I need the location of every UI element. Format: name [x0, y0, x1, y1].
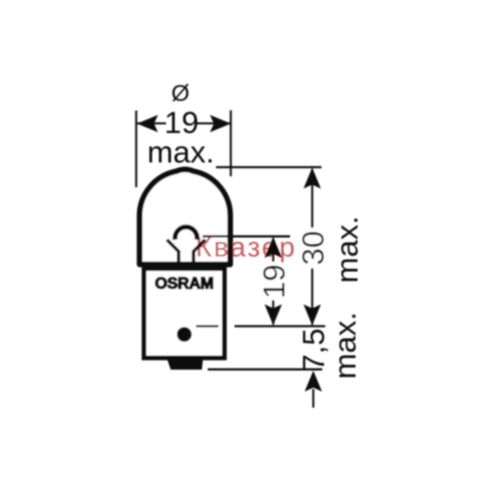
- dome top reference line: [216, 166, 322, 168]
- arrow 19 down: [265, 304, 282, 325]
- svg-text:Ø: Ø: [171, 80, 189, 106]
- svg-text:7,5: 7,5: [296, 328, 331, 371]
- arrow 7,5 up from below: [305, 371, 322, 392]
- contact: [166, 356, 203, 369]
- svg-text:Квазер: Квазер: [196, 232, 297, 263]
- bayonet pin dot: [177, 327, 192, 342]
- 19 LCL dimension line: [272, 238, 274, 325]
- arrow 19 up: [265, 237, 282, 258]
- arrow right: [210, 115, 231, 132]
- svg-text:max.: max.: [330, 216, 365, 283]
- svg-text:max.: max.: [328, 312, 363, 379]
- diameter extension line right: [230, 110, 232, 176]
- filament plane reference line: [203, 235, 291, 237]
- svg-text:max.: max.: [147, 134, 214, 169]
- svg-text:OSRAM: OSRAM: [155, 276, 214, 293]
- arrow left: [137, 115, 158, 132]
- svg-text:30: 30: [296, 231, 331, 265]
- filament support right: [194, 240, 206, 264]
- glass envelope: [140, 169, 231, 264]
- filament support left: [167, 240, 179, 264]
- 30 dimension line: [311, 169, 313, 325]
- base cap: [144, 269, 224, 358]
- filament arc: [175, 227, 197, 240]
- pin leader line: [196, 325, 218, 327]
- arrow 30 up: [304, 168, 321, 189]
- diameter extension line left: [135, 111, 137, 188]
- svg-text:19: 19: [257, 264, 292, 298]
- arrow 30 down: [304, 304, 321, 325]
- arrow 7,5 shaft: [312, 389, 314, 408]
- contact bottom reference line: [208, 368, 323, 370]
- diameter dimension line: [137, 122, 166, 124]
